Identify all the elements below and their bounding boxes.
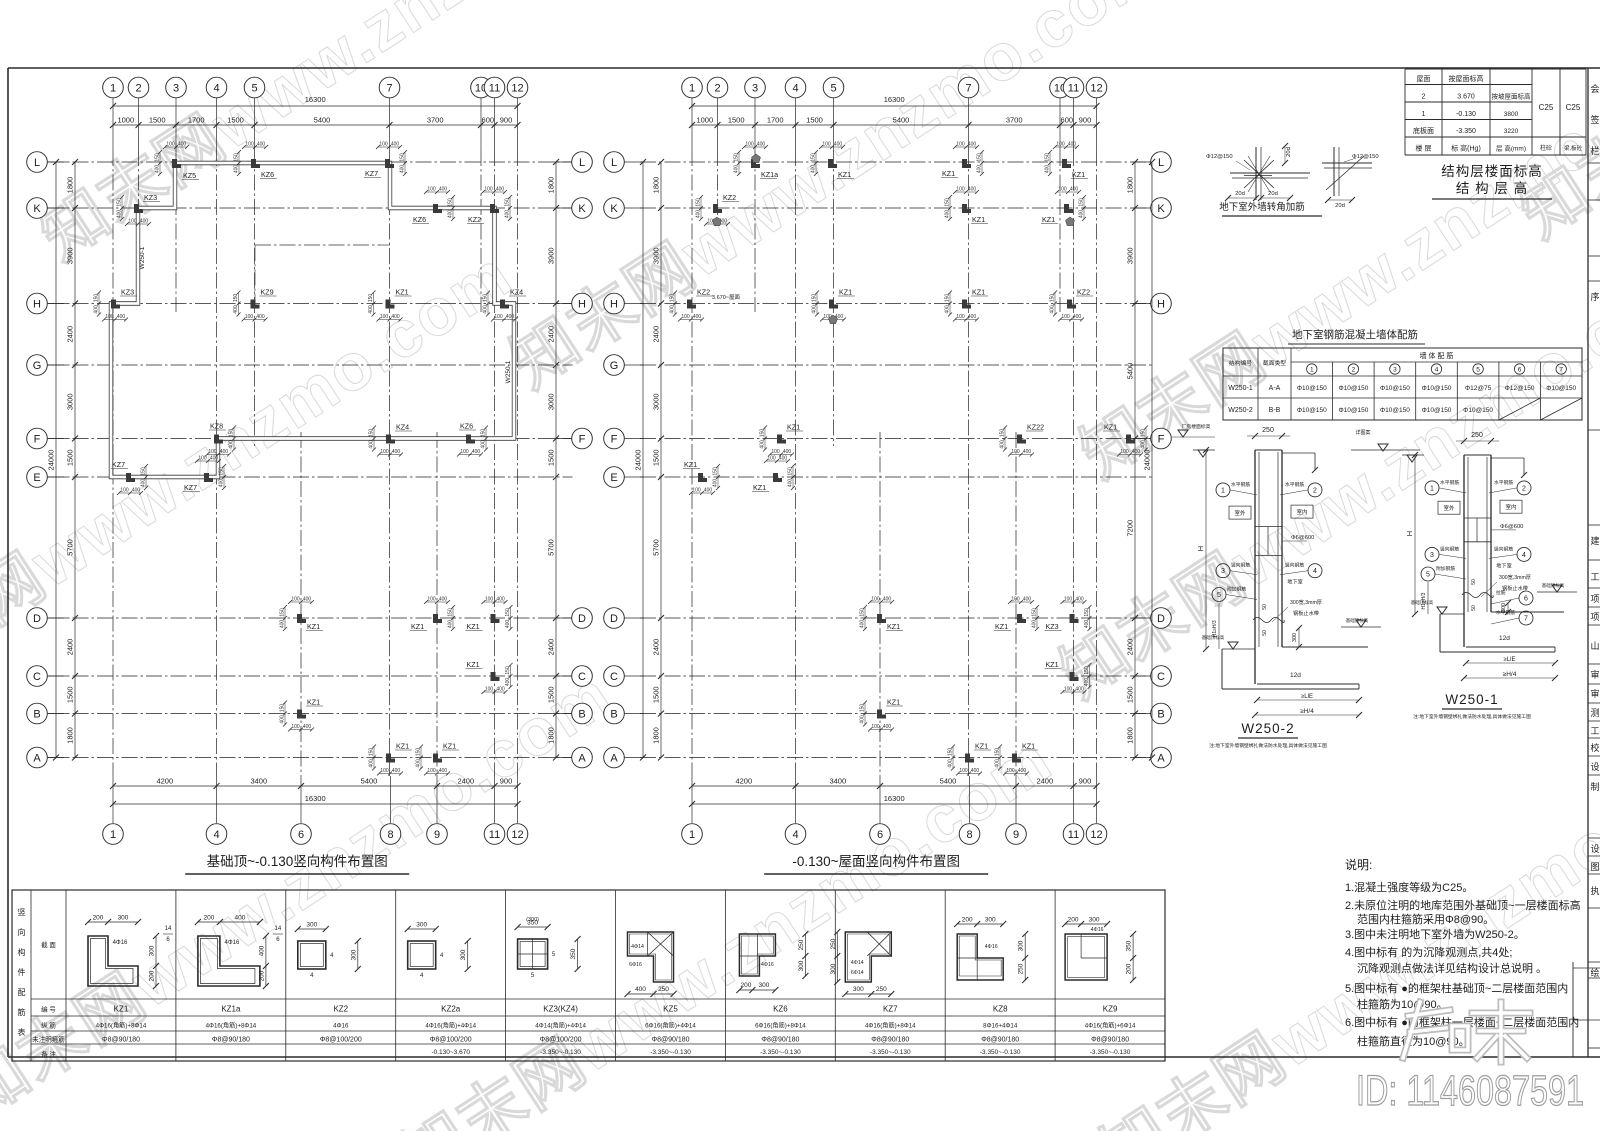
svg-text:100: 100 <box>380 314 389 320</box>
svg-text:B: B <box>578 709 585 721</box>
svg-text:地下室: 地下室 <box>1287 578 1303 586</box>
svg-text:100: 100 <box>427 187 436 193</box>
svg-text:400: 400 <box>1075 687 1084 693</box>
svg-text:400: 400 <box>834 142 843 148</box>
svg-text:KZ1: KZ1 <box>838 170 851 179</box>
svg-text:5400: 5400 <box>940 777 957 786</box>
svg-text:150: 150 <box>234 153 240 162</box>
svg-text:400: 400 <box>483 305 489 314</box>
svg-text:100: 100 <box>128 219 137 225</box>
svg-text:KZ6: KZ6 <box>413 215 426 224</box>
column KZ1 <box>962 204 971 213</box>
svg-text:1500: 1500 <box>66 686 75 703</box>
svg-text:150: 150 <box>505 666 511 675</box>
svg-text:1500: 1500 <box>547 686 556 703</box>
svg-text:12d: 12d <box>1499 635 1510 642</box>
svg-text:KZ1: KZ1 <box>411 622 424 631</box>
column KZ6 <box>466 435 475 444</box>
svg-text:150: 150 <box>416 748 422 757</box>
svg-text:1500: 1500 <box>652 686 661 703</box>
column KZ7 <box>204 473 213 482</box>
svg-text:11: 11 <box>489 83 500 95</box>
svg-text:100: 100 <box>380 449 389 455</box>
svg-text:1800: 1800 <box>1126 727 1135 744</box>
svg-text:1800: 1800 <box>652 727 661 744</box>
svg-text:KZ1: KZ1 <box>972 215 985 224</box>
svg-text:H: H <box>1405 531 1414 536</box>
column KZ1 <box>828 159 837 168</box>
svg-text:1800: 1800 <box>652 177 661 194</box>
column KZ8 <box>214 435 223 444</box>
svg-text:室内: 室内 <box>1505 503 1516 511</box>
svg-text:150: 150 <box>280 704 286 713</box>
svg-text:400: 400 <box>1045 165 1051 174</box>
svg-text:K: K <box>33 203 41 215</box>
svg-text:地下室外墙转角加筋: 地下室外墙转角加筋 <box>1219 201 1305 213</box>
svg-text:3700: 3700 <box>1006 116 1023 125</box>
svg-text:K: K <box>610 203 618 215</box>
svg-text:11: 11 <box>1068 83 1079 95</box>
svg-text:筋: 筋 <box>18 1007 26 1017</box>
svg-text:20d: 20d <box>1335 203 1345 209</box>
svg-text:6Φ16(角筋)+4Φ14: 6Φ16(角筋)+4Φ14 <box>645 1022 696 1030</box>
svg-text:-3.350~-0.130: -3.350~-0.130 <box>540 1049 581 1056</box>
svg-text:100: 100 <box>1064 597 1073 603</box>
svg-text:4Φ16(角筋)+8Φ14: 4Φ16(角筋)+8Φ14 <box>96 1022 147 1030</box>
svg-text:16300: 16300 <box>305 95 326 104</box>
svg-text:≥H/4: ≥H/4 <box>1503 671 1517 678</box>
svg-text:1500: 1500 <box>227 116 244 125</box>
svg-text:100: 100 <box>959 768 968 774</box>
svg-text:1500: 1500 <box>728 116 745 125</box>
svg-text:ID: 1146087591: ID: 1146087591 <box>1356 1067 1584 1115</box>
svg-text:4Φ16: 4Φ16 <box>113 940 128 946</box>
svg-text:5.图中标有 ●的框架柱基础顶~二层楼面范围内: 5.图中标有 ●的框架柱基础顶~二层楼面范围内 <box>1345 981 1568 995</box>
svg-text:5: 5 <box>830 83 836 95</box>
svg-text:6Φ14: 6Φ14 <box>851 970 864 976</box>
svg-text:400: 400 <box>448 210 454 219</box>
svg-text:100: 100 <box>494 314 503 320</box>
svg-text:150: 150 <box>369 429 375 438</box>
svg-text:1: 1 <box>110 83 116 95</box>
svg-text:件: 件 <box>18 967 26 977</box>
svg-text:150: 150 <box>369 748 375 757</box>
svg-text:KZ3: KZ3 <box>121 288 134 297</box>
plan grid horizontal axes <box>48 161 573 163</box>
svg-text:工: 工 <box>1590 572 1599 582</box>
svg-text:KZ7: KZ7 <box>112 460 125 469</box>
column KZ3 <box>134 204 143 213</box>
svg-text:水平钢筋: 水平钢筋 <box>1285 481 1304 488</box>
svg-text:400: 400 <box>234 165 240 174</box>
svg-text:E: E <box>33 472 40 484</box>
svg-text:1500: 1500 <box>66 449 75 466</box>
svg-text:3: 3 <box>752 83 758 95</box>
svg-text:400: 400 <box>505 210 511 219</box>
svg-text:KZ1: KZ1 <box>443 742 456 751</box>
svg-text:150: 150 <box>1141 429 1147 438</box>
svg-text:W250-2: W250-2 <box>1228 407 1253 414</box>
svg-text:16300: 16300 <box>884 794 905 803</box>
svg-text:基础顶~-0.130竖向构件布置图: 基础顶~-0.130竖向构件布置图 <box>207 853 388 869</box>
svg-text:100: 100 <box>291 724 300 730</box>
svg-text:4: 4 <box>792 83 798 95</box>
bottom dimension chains <box>113 785 518 787</box>
svg-text:5700: 5700 <box>547 539 556 556</box>
svg-text:5400: 5400 <box>893 116 910 125</box>
row axis circles right <box>572 152 593 173</box>
svg-text:400: 400 <box>141 479 147 488</box>
svg-text:150: 150 <box>505 198 511 207</box>
svg-text:16300: 16300 <box>884 95 905 104</box>
svg-text:1: 1 <box>1430 485 1434 492</box>
section sketch KZ5 <box>628 932 674 982</box>
svg-text:400: 400 <box>860 715 866 724</box>
bottom axis circles <box>691 776 693 823</box>
svg-text:150: 150 <box>280 608 286 617</box>
svg-text:12: 12 <box>1090 829 1102 841</box>
svg-text:Φ10@150: Φ10@150 <box>1338 407 1368 414</box>
right dimension chain <box>555 162 557 758</box>
svg-text:注:地下室外墙钢壁绑扎做法防水处理,具体做法见施工图: 注:地下室外墙钢壁绑扎做法防水处理,具体做法见施工图 <box>1413 713 1531 720</box>
svg-text:150: 150 <box>1084 666 1090 675</box>
svg-text:20d: 20d <box>1235 191 1245 197</box>
svg-text:室内: 室内 <box>1296 508 1307 516</box>
right dimension chain <box>1134 162 1136 758</box>
svg-text:900: 900 <box>1079 116 1092 125</box>
svg-text:400: 400 <box>229 440 235 449</box>
svg-text:Φ10@150: Φ10@150 <box>1422 385 1452 392</box>
svg-text:400: 400 <box>968 314 977 320</box>
svg-text:5400: 5400 <box>361 777 378 786</box>
svg-text:400: 400 <box>505 678 511 687</box>
svg-text:范围内柱箍筋采用Φ8@90。: 范围内柱箍筋采用Φ8@90。 <box>1357 912 1494 926</box>
svg-text:标 高(Hg): 标 高(Hg) <box>1451 144 1481 153</box>
svg-text:3900: 3900 <box>1126 247 1135 264</box>
svg-text:未注明箍筋: 未注明箍筋 <box>32 1035 65 1044</box>
svg-text:4: 4 <box>1435 367 1439 374</box>
column KZ1 <box>698 473 707 482</box>
svg-text:300: 300 <box>1089 917 1100 924</box>
svg-text:200: 200 <box>740 982 751 989</box>
svg-text:4Φ16(角筋)+8Φ14: 4Φ16(角筋)+8Φ14 <box>865 1022 916 1030</box>
svg-text:250: 250 <box>798 939 805 950</box>
svg-text:400: 400 <box>94 305 100 314</box>
svg-text:400: 400 <box>811 165 817 174</box>
plan grid vertical axes <box>112 150 114 776</box>
svg-text:基础顶标高: 基础顶标高 <box>1202 634 1225 641</box>
section sketch KZ8 <box>957 934 1003 980</box>
svg-text:序: 序 <box>1590 291 1599 302</box>
svg-text:4: 4 <box>792 829 798 841</box>
bottom dimension chains <box>692 785 1097 787</box>
svg-text:Φ12@150: Φ12@150 <box>1352 154 1379 160</box>
svg-text:150: 150 <box>400 153 406 162</box>
svg-text:竖向钢筋: 竖向钢筋 <box>1231 562 1250 569</box>
svg-text:3400: 3400 <box>250 777 267 786</box>
svg-text:250: 250 <box>876 986 887 993</box>
svg-text:400: 400 <box>258 945 265 956</box>
svg-text:400: 400 <box>1023 597 1032 603</box>
svg-text:1800: 1800 <box>547 177 556 194</box>
svg-text:600: 600 <box>482 116 495 125</box>
column schedule table <box>12 890 1165 1061</box>
svg-text:100: 100 <box>956 142 965 148</box>
svg-text:150: 150 <box>117 198 123 207</box>
svg-text:300宽,3mm厚: 300宽,3mm厚 <box>1499 573 1531 581</box>
section sketch KZ7 <box>845 932 891 982</box>
svg-text:KZ2a: KZ2a <box>441 1005 461 1014</box>
svg-text:900: 900 <box>1079 777 1092 786</box>
svg-text:Φ10@150: Φ10@150 <box>1297 407 1327 414</box>
svg-text:Φ8@100/200: Φ8@100/200 <box>430 1037 472 1044</box>
bottom axis circles <box>112 776 114 823</box>
svg-text:400: 400 <box>369 759 375 768</box>
svg-text:KZ6: KZ6 <box>261 170 274 179</box>
svg-text:绘: 绘 <box>1590 967 1599 978</box>
svg-text:KZ7: KZ7 <box>883 1005 898 1014</box>
svg-text:400: 400 <box>505 620 511 629</box>
svg-text:400: 400 <box>788 479 794 488</box>
svg-text:梁,板砼: 梁,板砼 <box>1564 144 1583 152</box>
wall schedule table <box>1223 348 1582 420</box>
svg-text:900: 900 <box>500 777 513 786</box>
svg-text:K: K <box>578 203 586 215</box>
svg-text:KZ1: KZ1 <box>684 460 697 469</box>
svg-text:400: 400 <box>812 305 818 314</box>
svg-text:Φ10@150: Φ10@150 <box>1380 385 1410 392</box>
svg-text:100: 100 <box>484 187 493 193</box>
svg-text:11: 11 <box>1068 829 1079 841</box>
drawing frame border <box>8 67 1600 69</box>
svg-text:400: 400 <box>280 620 286 629</box>
svg-text:建: 建 <box>1590 535 1599 546</box>
svg-text:3000: 3000 <box>547 393 556 410</box>
svg-text:W250-1: W250-1 <box>1445 692 1498 707</box>
svg-text:3.670: 3.670 <box>1457 93 1475 100</box>
svg-text:2400: 2400 <box>66 639 75 656</box>
svg-text:600: 600 <box>1061 116 1074 125</box>
svg-text:4Φ16(角筋)+8Φ14: 4Φ16(角筋)+8Φ14 <box>206 1022 257 1030</box>
svg-text:底板面: 底板面 <box>1413 126 1434 135</box>
svg-text:≥LlE: ≥LlE <box>1301 694 1313 700</box>
svg-text:设: 设 <box>1590 844 1599 854</box>
svg-text:项: 项 <box>1590 594 1599 604</box>
svg-text:D: D <box>1157 613 1165 625</box>
svg-text:250: 250 <box>1018 963 1025 974</box>
svg-text:5: 5 <box>1426 572 1430 579</box>
svg-text:12: 12 <box>511 829 523 841</box>
svg-text:G: G <box>610 360 619 372</box>
svg-text:150: 150 <box>860 704 866 713</box>
title block right strip <box>1587 68 1589 1057</box>
svg-text:8Φ16+4Φ14: 8Φ16+4Φ14 <box>983 1023 1018 1030</box>
svg-text:9: 9 <box>1013 829 1019 841</box>
svg-text:1000: 1000 <box>117 116 134 125</box>
svg-text:400: 400 <box>257 142 266 148</box>
svg-text:构: 构 <box>18 947 26 957</box>
top dimension chains <box>692 105 1097 107</box>
svg-text:150: 150 <box>481 429 487 438</box>
svg-text:3.图中未注明地下室外墙为W250-2。: 3.图中未注明地下室外墙为W250-2。 <box>1345 927 1525 941</box>
svg-text:2400: 2400 <box>66 326 75 343</box>
svg-text:100: 100 <box>198 456 207 462</box>
svg-text:100: 100 <box>871 724 880 730</box>
svg-text:钢板止水带: 钢板止水带 <box>1502 584 1528 592</box>
svg-text:400: 400 <box>303 597 312 603</box>
svg-text:400: 400 <box>704 488 713 494</box>
column KZ1 <box>1017 614 1026 623</box>
svg-text:300: 300 <box>306 922 317 929</box>
svg-text:400: 400 <box>883 724 892 730</box>
svg-text:-0.130~屋面竖向构件布置图: -0.130~屋面竖向构件布置图 <box>792 854 960 869</box>
svg-text:2: 2 <box>1422 93 1426 100</box>
svg-text:KZ22: KZ22 <box>1027 423 1044 432</box>
svg-text:7: 7 <box>386 83 392 95</box>
svg-text:KZ2: KZ2 <box>697 288 710 297</box>
svg-text:KZ1: KZ1 <box>114 1005 129 1014</box>
svg-text:4200: 4200 <box>156 777 173 786</box>
svg-text:按屋面标高: 按屋面标高 <box>1449 74 1484 83</box>
svg-text:1800: 1800 <box>66 727 75 744</box>
svg-text:2: 2 <box>1313 487 1317 494</box>
svg-text:KZ1: KZ1 <box>467 622 480 631</box>
svg-text:150: 150 <box>1079 198 1085 207</box>
column KZ7 <box>385 159 394 168</box>
svg-text:1500: 1500 <box>149 116 166 125</box>
svg-text:W250-1: W250-1 <box>1228 385 1253 392</box>
svg-text:KZ3: KZ3 <box>1046 622 1059 631</box>
svg-text:C: C <box>578 671 586 683</box>
row axis circles left <box>27 152 48 173</box>
svg-text:Φ12@150: Φ12@150 <box>1505 385 1535 392</box>
column KZ4 <box>500 300 509 309</box>
svg-text:150: 150 <box>219 467 225 476</box>
svg-text:地下室钢筋混凝土墙体配筋: 地下室钢筋混凝土墙体配筋 <box>1292 328 1418 341</box>
svg-text:1800: 1800 <box>547 727 556 744</box>
svg-text:7: 7 <box>1524 616 1528 623</box>
svg-text:KZ1: KZ1 <box>396 288 409 297</box>
svg-text:按坡屋面标高: 按坡屋面标高 <box>1492 91 1532 100</box>
svg-text:4: 4 <box>213 829 219 841</box>
svg-text:详图案: 详图案 <box>1355 429 1370 436</box>
column KZ6 <box>433 204 442 213</box>
column KZ2 <box>1067 300 1076 309</box>
svg-text:400: 400 <box>1018 768 1027 774</box>
svg-text:900: 900 <box>500 116 513 125</box>
svg-text:400: 400 <box>948 759 954 768</box>
column KZ4 <box>386 435 395 444</box>
svg-text:Φ8@90/180: Φ8@90/180 <box>102 1037 140 1044</box>
svg-text:KZ5: KZ5 <box>663 1005 678 1014</box>
corner detail right (L junction) <box>1322 162 1372 164</box>
svg-text:12: 12 <box>1090 83 1102 95</box>
svg-text:100: 100 <box>460 449 469 455</box>
svg-text:300: 300 <box>1292 633 1298 642</box>
svg-text:Φ12@75: Φ12@75 <box>1465 385 1492 392</box>
svg-text:400: 400 <box>1000 440 1006 449</box>
column KZ1 <box>491 672 500 681</box>
svg-text:400: 400 <box>1132 449 1141 455</box>
svg-text:100: 100 <box>245 142 254 148</box>
svg-text:KZ1: KZ1 <box>839 288 852 297</box>
svg-text:1: 1 <box>1310 367 1314 374</box>
svg-text:150: 150 <box>448 198 454 207</box>
svg-text:水平钢筋: 水平钢筋 <box>1440 479 1459 486</box>
column KZ1 <box>491 614 500 623</box>
svg-text:400: 400 <box>945 305 951 314</box>
svg-text:300: 300 <box>416 922 427 929</box>
svg-text:4Φ14: 4Φ14 <box>851 960 864 966</box>
svg-text:200: 200 <box>149 970 156 981</box>
section sketch KZ9 <box>1065 934 1107 980</box>
svg-text:350: 350 <box>570 948 577 959</box>
svg-text:100: 100 <box>1056 142 1065 148</box>
svg-text:150: 150 <box>448 608 454 617</box>
svg-text:KZ2: KZ2 <box>723 193 736 202</box>
svg-text:表: 表 <box>18 1027 26 1037</box>
svg-text:KZ9: KZ9 <box>1103 1005 1118 1014</box>
column KZ22 <box>1017 435 1026 444</box>
svg-text:14: 14 <box>275 926 282 932</box>
svg-text:200: 200 <box>258 970 265 981</box>
left dimension chain <box>55 162 57 758</box>
svg-text:100: 100 <box>1061 314 1070 320</box>
svg-text:400: 400 <box>392 449 401 455</box>
svg-text:竖向钢筋: 竖向钢筋 <box>1494 545 1513 552</box>
svg-text:400: 400 <box>860 620 866 629</box>
svg-text:竖向钢筋: 竖向钢筋 <box>1440 545 1459 552</box>
svg-text:-3.350: -3.350 <box>1456 128 1476 135</box>
svg-text:400: 400 <box>779 456 788 462</box>
svg-text:4.图中标有 的为沉降观测点,共4处;: 4.图中标有 的为沉降观测点,共4处; <box>1345 945 1512 959</box>
svg-text:屋面: 屋面 <box>1417 75 1431 83</box>
svg-text:150: 150 <box>811 153 817 162</box>
svg-text:2400: 2400 <box>652 639 661 656</box>
svg-text:400: 400 <box>977 165 983 174</box>
svg-text:3000: 3000 <box>652 393 661 410</box>
svg-text:KZ1: KZ1 <box>995 622 1008 631</box>
svg-text:L: L <box>34 157 40 169</box>
svg-text:20d: 20d <box>1286 147 1292 157</box>
row axis circles left <box>604 152 625 173</box>
svg-text:Φ8@90/180: Φ8@90/180 <box>212 1037 250 1044</box>
svg-text:厂房楼面标高: 厂房楼面标高 <box>1182 423 1211 430</box>
svg-text:400: 400 <box>140 219 149 225</box>
svg-text:6: 6 <box>1518 367 1522 374</box>
svg-text:Φ6@600: Φ6@600 <box>1500 524 1523 530</box>
svg-text:4: 4 <box>213 83 219 95</box>
svg-text:150: 150 <box>860 608 866 617</box>
svg-text:100: 100 <box>1011 449 1020 455</box>
svg-text:设: 设 <box>1590 762 1599 772</box>
svg-text:150: 150 <box>94 294 100 303</box>
svg-text:100: 100 <box>485 687 494 693</box>
svg-text:150: 150 <box>1050 294 1056 303</box>
column KZ1 <box>1012 754 1021 763</box>
svg-text:400: 400 <box>303 724 312 730</box>
svg-text:100: 100 <box>956 314 965 320</box>
svg-text:400: 400 <box>883 597 892 603</box>
svg-text:3800: 3800 <box>1504 111 1519 118</box>
svg-text:1500: 1500 <box>1126 686 1135 703</box>
svg-text:1000: 1000 <box>696 116 713 125</box>
svg-text:150: 150 <box>945 294 951 303</box>
svg-text:100: 100 <box>1011 597 1020 603</box>
svg-text:350: 350 <box>1126 940 1133 951</box>
svg-text:400: 400 <box>219 479 225 488</box>
svg-text:KZ1: KZ1 <box>1046 660 1059 669</box>
